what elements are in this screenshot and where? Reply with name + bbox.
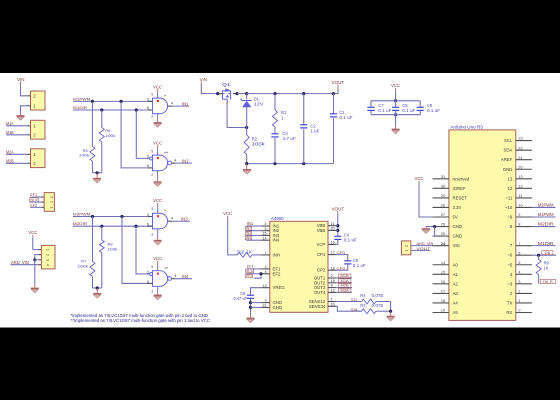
svg-text:11: 11 — [518, 194, 522, 198]
svg-text:100k: 100k — [105, 133, 115, 138]
svg-text:4: 4 — [265, 222, 267, 226]
svg-text:RX: RX — [506, 310, 512, 315]
svg-text:S12: S12 — [351, 297, 358, 302]
svg-text:SDA: SDA — [503, 148, 512, 153]
svg-text:M2A: M2A — [341, 288, 350, 292]
svg-text:21: 21 — [262, 304, 266, 308]
svg-text:~5: ~5 — [507, 262, 513, 267]
svg-text:GND: GND — [503, 167, 513, 172]
svg-text:TX: TX — [507, 300, 513, 305]
svg-text:2: 2 — [518, 290, 520, 294]
svg-text:18: 18 — [441, 299, 445, 303]
svg-text:5: 5 — [151, 92, 153, 96]
svg-text:5: 5 — [518, 261, 520, 265]
svg-text:1K: 1K — [246, 249, 252, 254]
svg-text:A5: A5 — [453, 310, 459, 315]
svg-text:M2DIR: M2DIR — [538, 222, 554, 227]
svg-text:SCL: SCL — [504, 138, 513, 143]
svg-text:VCC: VCC — [391, 83, 400, 88]
svg-text:~3: ~3 — [507, 281, 513, 286]
svg-text:0.1 uF: 0.1 uF — [344, 237, 358, 242]
svg-text:4: 4 — [171, 102, 173, 106]
svg-text:~9: ~9 — [507, 215, 513, 220]
svg-text:IOREF: IOREF — [453, 186, 467, 191]
svg-text:0.075: 0.075 — [372, 293, 384, 298]
svg-text:4.7 uF: 4.7 uF — [282, 136, 296, 141]
svg-text:M1B: M1B — [341, 274, 350, 278]
svg-text:VCC: VCC — [153, 198, 162, 203]
svg-text:EF1: EF1 — [247, 265, 254, 269]
svg-text:5: 5 — [151, 207, 153, 211]
svg-text:A4990: A4990 — [271, 216, 284, 221]
svg-text:0.1 uF: 0.1 uF — [353, 263, 367, 268]
svg-text:VOUT: VOUT — [332, 206, 345, 211]
svg-text:9: 9 — [518, 213, 520, 217]
svg-text:4: 4 — [265, 270, 267, 274]
svg-text:2: 2 — [404, 245, 409, 247]
svg-text:14: 14 — [262, 236, 266, 240]
svg-text:6: 6 — [147, 106, 149, 110]
svg-text:*: * — [164, 93, 166, 98]
svg-text:VIN: VIN — [200, 77, 208, 82]
svg-text:12: 12 — [508, 186, 513, 191]
svg-text:7: 7 — [518, 242, 520, 246]
svg-text:4: 4 — [174, 159, 176, 163]
svg-text:6: 6 — [147, 222, 149, 226]
svg-text:3: 3 — [265, 265, 267, 269]
svg-text:R4: R4 — [360, 293, 366, 298]
svg-text:VBB: VBB — [317, 228, 326, 233]
svg-text:10: 10 — [331, 302, 335, 306]
svg-text:20: 20 — [518, 165, 522, 169]
svg-text:16: 16 — [441, 280, 445, 284]
svg-text:3: 3 — [147, 98, 149, 102]
svg-text:AREF: AREF — [501, 157, 513, 162]
svg-text:0.1 uF: 0.1 uF — [378, 108, 392, 113]
svg-text:~11: ~11 — [505, 195, 513, 200]
svg-text:13: 13 — [262, 284, 266, 288]
svg-text:VOUT: VOUT — [332, 80, 345, 85]
svg-text:26: 26 — [441, 223, 445, 227]
svg-text:4: 4 — [171, 217, 173, 221]
svg-text:SENS34: SENS34 — [309, 304, 326, 309]
svg-text:EF2: EF2 — [273, 271, 281, 276]
svg-text:D6: D6 — [545, 251, 550, 255]
svg-text:~6: ~6 — [507, 253, 513, 258]
svg-text:16: 16 — [331, 241, 335, 245]
svg-text:6: 6 — [147, 164, 149, 168]
svg-text:VOUT: VOUT — [417, 246, 431, 251]
svg-text:1: 1 — [518, 299, 520, 303]
svg-text:OUT4: OUT4 — [314, 290, 326, 295]
svg-text:IN4: IN4 — [273, 238, 280, 243]
svg-text:M1PWM: M1PWM — [73, 96, 90, 101]
svg-text:M2PWM: M2PWM — [73, 211, 91, 216]
svg-text:R10: R10 — [237, 249, 245, 254]
svg-text:D1: D1 — [254, 96, 260, 101]
svg-text:A4: A4 — [453, 300, 459, 305]
svg-text:0: 0 — [518, 309, 520, 313]
svg-text:IN1: IN1 — [182, 101, 189, 106]
svg-text:31: 31 — [441, 175, 445, 179]
svg-text:GND: GND — [273, 305, 283, 310]
svg-text:27: 27 — [441, 213, 445, 217]
svg-text:VCC: VCC — [28, 230, 37, 235]
svg-text:M1DIR: M1DIR — [73, 105, 87, 110]
svg-text:CP2: CP2 — [317, 268, 326, 273]
svg-text:14: 14 — [441, 261, 445, 265]
svg-text:reserved: reserved — [453, 176, 470, 181]
svg-text:17: 17 — [441, 290, 445, 294]
svg-text:CP1: CP1 — [317, 252, 326, 257]
svg-text:M1DIR: M1DIR — [538, 241, 554, 246]
svg-text:S34: S34 — [351, 307, 358, 312]
svg-text:R3: R3 — [360, 303, 366, 308]
svg-text:M2DIR: M2DIR — [73, 221, 87, 226]
svg-text:M2B: M2B — [341, 284, 350, 288]
svg-text:IN4: IN4 — [246, 236, 251, 240]
svg-text:EF2: EF2 — [246, 274, 252, 278]
svg-text:CP2: CP2 — [337, 266, 347, 271]
svg-text:15: 15 — [441, 270, 445, 274]
svg-text:**Implemented as 74LVC1G97 mul: **Implemented as 74LVC1G97 multi-functio… — [71, 318, 211, 323]
svg-text:*: * — [164, 208, 166, 213]
svg-text:IN3: IN3 — [181, 217, 188, 222]
svg-text:5: 5 — [151, 265, 153, 269]
svg-text:INH: INH — [273, 252, 280, 257]
svg-text:30: 30 — [441, 184, 445, 188]
svg-text:28: 28 — [441, 204, 445, 208]
svg-text:Q1: Q1 — [222, 82, 231, 87]
svg-text:25: 25 — [441, 232, 445, 236]
svg-text:22: 22 — [518, 146, 522, 150]
svg-text:17: 17 — [331, 251, 335, 255]
svg-text:M1A: M1A — [341, 279, 350, 283]
svg-text:0.075: 0.075 — [372, 303, 384, 308]
svg-text:13: 13 — [518, 175, 522, 179]
svg-text:9: 9 — [265, 299, 267, 303]
svg-text:3: 3 — [518, 280, 520, 284]
svg-text:~10: ~10 — [505, 205, 513, 210]
svg-text:11: 11 — [331, 222, 335, 226]
svg-text:1: 1 — [331, 298, 333, 302]
svg-text:IN1: IN1 — [247, 221, 254, 226]
svg-text:100k: 100k — [252, 142, 266, 147]
svg-text:100k: 100k — [78, 264, 89, 269]
svg-text:0.1 uF: 0.1 uF — [339, 115, 353, 120]
svg-text:M1PWM: M1PWM — [538, 212, 554, 217]
svg-text:100k: 100k — [79, 153, 90, 158]
svg-text:3: 3 — [147, 155, 149, 159]
svg-text:4: 4 — [174, 274, 176, 278]
svg-text:8: 8 — [331, 284, 333, 288]
svg-text:VIN: VIN — [17, 77, 25, 82]
svg-text:IN4: IN4 — [182, 274, 189, 279]
svg-text:5: 5 — [151, 150, 153, 154]
svg-text:2: 2 — [151, 173, 153, 177]
svg-text:1 uF: 1 uF — [310, 129, 320, 134]
svg-text:ARD_VIN: ARD_VIN — [11, 260, 29, 265]
svg-text:A1: A1 — [453, 272, 459, 277]
svg-text:7: 7 — [265, 251, 267, 255]
svg-text:5: 5 — [265, 227, 267, 231]
svg-text:2: 2 — [331, 274, 333, 278]
svg-text:3: 3 — [147, 213, 149, 217]
svg-text:1K: 1K — [544, 265, 549, 270]
svg-text:A3: A3 — [453, 291, 459, 296]
svg-text:D6_R: D6_R — [543, 280, 553, 284]
svg-text:IN2: IN2 — [182, 158, 189, 163]
svg-text:M2PWM: M2PWM — [538, 203, 554, 208]
svg-text:13: 13 — [508, 176, 513, 181]
svg-text:19: 19 — [331, 279, 335, 283]
svg-text:VREG: VREG — [273, 285, 286, 290]
svg-text:D6_R: D6_R — [246, 269, 253, 273]
svg-text:29: 29 — [441, 194, 445, 198]
svg-text:23: 23 — [518, 137, 522, 141]
svg-text:VCC: VCC — [153, 84, 162, 89]
svg-text:19: 19 — [441, 309, 445, 313]
svg-text:GND: GND — [453, 224, 463, 229]
svg-text:VCC: VCC — [153, 256, 162, 261]
svg-text:IN3: IN3 — [246, 231, 251, 235]
svg-text:IN2: IN2 — [246, 227, 251, 231]
svg-text:A0: A0 — [453, 262, 459, 267]
svg-text:2: 2 — [151, 290, 153, 294]
svg-text:100k: 100k — [108, 247, 118, 252]
svg-text:**: ** — [164, 266, 168, 271]
svg-text:1: 1 — [404, 250, 409, 252]
svg-text:GND: GND — [453, 234, 463, 239]
svg-text:**: ** — [164, 150, 168, 155]
svg-text:6: 6 — [518, 251, 520, 255]
svg-text:0.1 uF: 0.1 uF — [427, 108, 441, 113]
svg-text:VCC: VCC — [223, 211, 232, 216]
svg-text:VCC: VCC — [153, 140, 162, 145]
svg-text:18: 18 — [331, 266, 335, 270]
svg-text:21: 21 — [518, 156, 522, 160]
svg-text:0.1 uF: 0.1 uF — [402, 108, 416, 113]
svg-text:Arduino Uno R3: Arduino Uno R3 — [450, 125, 483, 130]
svg-text:4: 4 — [518, 270, 520, 274]
svg-text:24: 24 — [441, 242, 445, 246]
svg-text:3.3V: 3.3V — [453, 205, 462, 210]
svg-text:20: 20 — [331, 227, 335, 231]
svg-text:3: 3 — [147, 270, 149, 274]
svg-text:12V: 12V — [254, 102, 264, 107]
svg-text:10: 10 — [518, 204, 522, 208]
svg-text:VIN: VIN — [453, 243, 460, 248]
svg-text:15: 15 — [262, 232, 266, 236]
svg-text:RESET: RESET — [453, 195, 468, 200]
svg-text:8: 8 — [518, 223, 520, 227]
svg-text:VCP: VCP — [316, 242, 325, 247]
svg-text:2: 2 — [151, 233, 153, 237]
svg-text:VCC: VCC — [415, 176, 424, 181]
svg-text:2: 2 — [151, 115, 153, 119]
svg-text:0.47 uF: 0.47 uF — [234, 296, 248, 301]
svg-text:12: 12 — [331, 289, 335, 293]
svg-text:A2: A2 — [453, 281, 459, 286]
svg-text:5V: 5V — [453, 215, 458, 220]
svg-text:6: 6 — [147, 280, 149, 284]
svg-text:12: 12 — [518, 184, 522, 188]
